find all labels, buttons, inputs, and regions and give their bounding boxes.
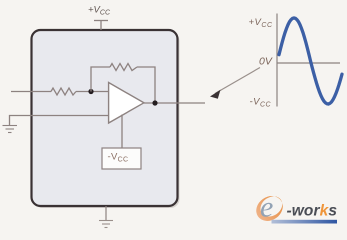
svg-text:e: e xyxy=(260,191,273,224)
amplifier body box shadow xyxy=(34,32,180,208)
ground (bottom) xyxy=(99,221,113,228)
-Vcc supply box xyxy=(102,148,141,169)
ground (left) xyxy=(3,126,18,133)
output wire xyxy=(144,102,205,104)
op-amp U1 xyxy=(109,83,144,124)
svg-text:0V: 0V xyxy=(259,56,273,68)
wire: box bottom to ground xyxy=(105,206,107,220)
wire: R1 to op-amp inverting input xyxy=(76,91,109,93)
svg-text:+VCC: +VCC xyxy=(249,17,273,29)
node: output junction xyxy=(152,100,157,105)
wire: input to R1 xyxy=(11,91,51,93)
+Vcc supply terminal bar xyxy=(94,20,108,22)
resistor R1 (input) xyxy=(51,88,76,95)
wire: +Vcc terminal to box top xyxy=(100,21,102,31)
resistor R2 (feedback) xyxy=(110,64,137,71)
wire: feedback loop xyxy=(91,67,155,103)
svg-text:+VCC: +VCC xyxy=(88,5,111,17)
node: inverting input junction xyxy=(88,89,93,94)
svg-text:-VCC: -VCC xyxy=(250,97,272,109)
annotation arrow xyxy=(215,68,260,94)
waveform horizontal axis xyxy=(277,62,340,64)
e-works logo: gradient bar xyxy=(272,220,338,224)
non-inverting input wire xyxy=(10,116,109,126)
wire: op-amp to -Vcc box xyxy=(121,115,123,149)
waveform vertical axis xyxy=(276,14,278,107)
e-works logo: orange swoosh xyxy=(251,191,287,226)
svg-text:-works: -works xyxy=(287,203,338,220)
amplifier body box xyxy=(32,30,178,206)
sine wave xyxy=(279,18,342,104)
